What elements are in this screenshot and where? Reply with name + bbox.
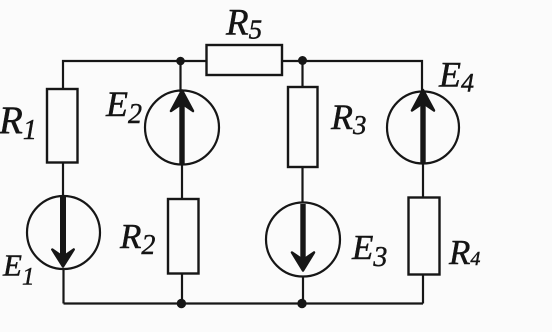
wire R1 bottom to E1 top bbox=[62, 163, 64, 198]
resistor R1 bbox=[47, 89, 78, 163]
wire R2 bottom stub bbox=[181, 274, 183, 304]
resistor R4 bbox=[409, 198, 440, 275]
E2 arrow (upward) bbox=[179, 105, 184, 164]
wire branch-2 top stub bbox=[179, 61, 181, 92]
wire R4 bottom stub bbox=[422, 275, 424, 304]
resistor R3 bbox=[288, 87, 318, 167]
wire E1 bottom to bottom rail bbox=[62, 269, 64, 304]
wire E2 bottom to R2 top bbox=[181, 165, 183, 200]
resistor R2 bbox=[168, 199, 199, 274]
E4 arrow (upward) bbox=[420, 105, 425, 163]
wire branch-3 top stub bbox=[301, 61, 303, 88]
wire top-right segment (node B: R5 right to E4 top) bbox=[282, 61, 422, 92]
voltage source E1 circle bbox=[27, 196, 100, 269]
wire E4 bottom to R4 top bbox=[422, 164, 424, 198]
bottom wire rail (node C) bbox=[64, 302, 424, 304]
voltage source E2 circle bbox=[145, 91, 219, 165]
E3 arrow (downward) bbox=[300, 204, 305, 261]
junction node dot bottom-right bbox=[297, 299, 306, 308]
junction node dot top-right bbox=[298, 56, 307, 65]
voltage source E3 circle bbox=[266, 203, 340, 277]
E1 arrow (downward) bbox=[60, 197, 66, 258]
wire R3 bottom to E3 top bbox=[301, 167, 303, 203]
junction node dot top-left bbox=[176, 57, 185, 66]
wire top-left segment (node A: R1 top to R5 left) bbox=[63, 61, 207, 90]
resistor R5 bbox=[207, 45, 283, 75]
junction node dot bottom-left bbox=[177, 299, 186, 308]
wire E3 bottom stub bbox=[302, 277, 304, 304]
voltage source E4 circle bbox=[387, 92, 459, 164]
